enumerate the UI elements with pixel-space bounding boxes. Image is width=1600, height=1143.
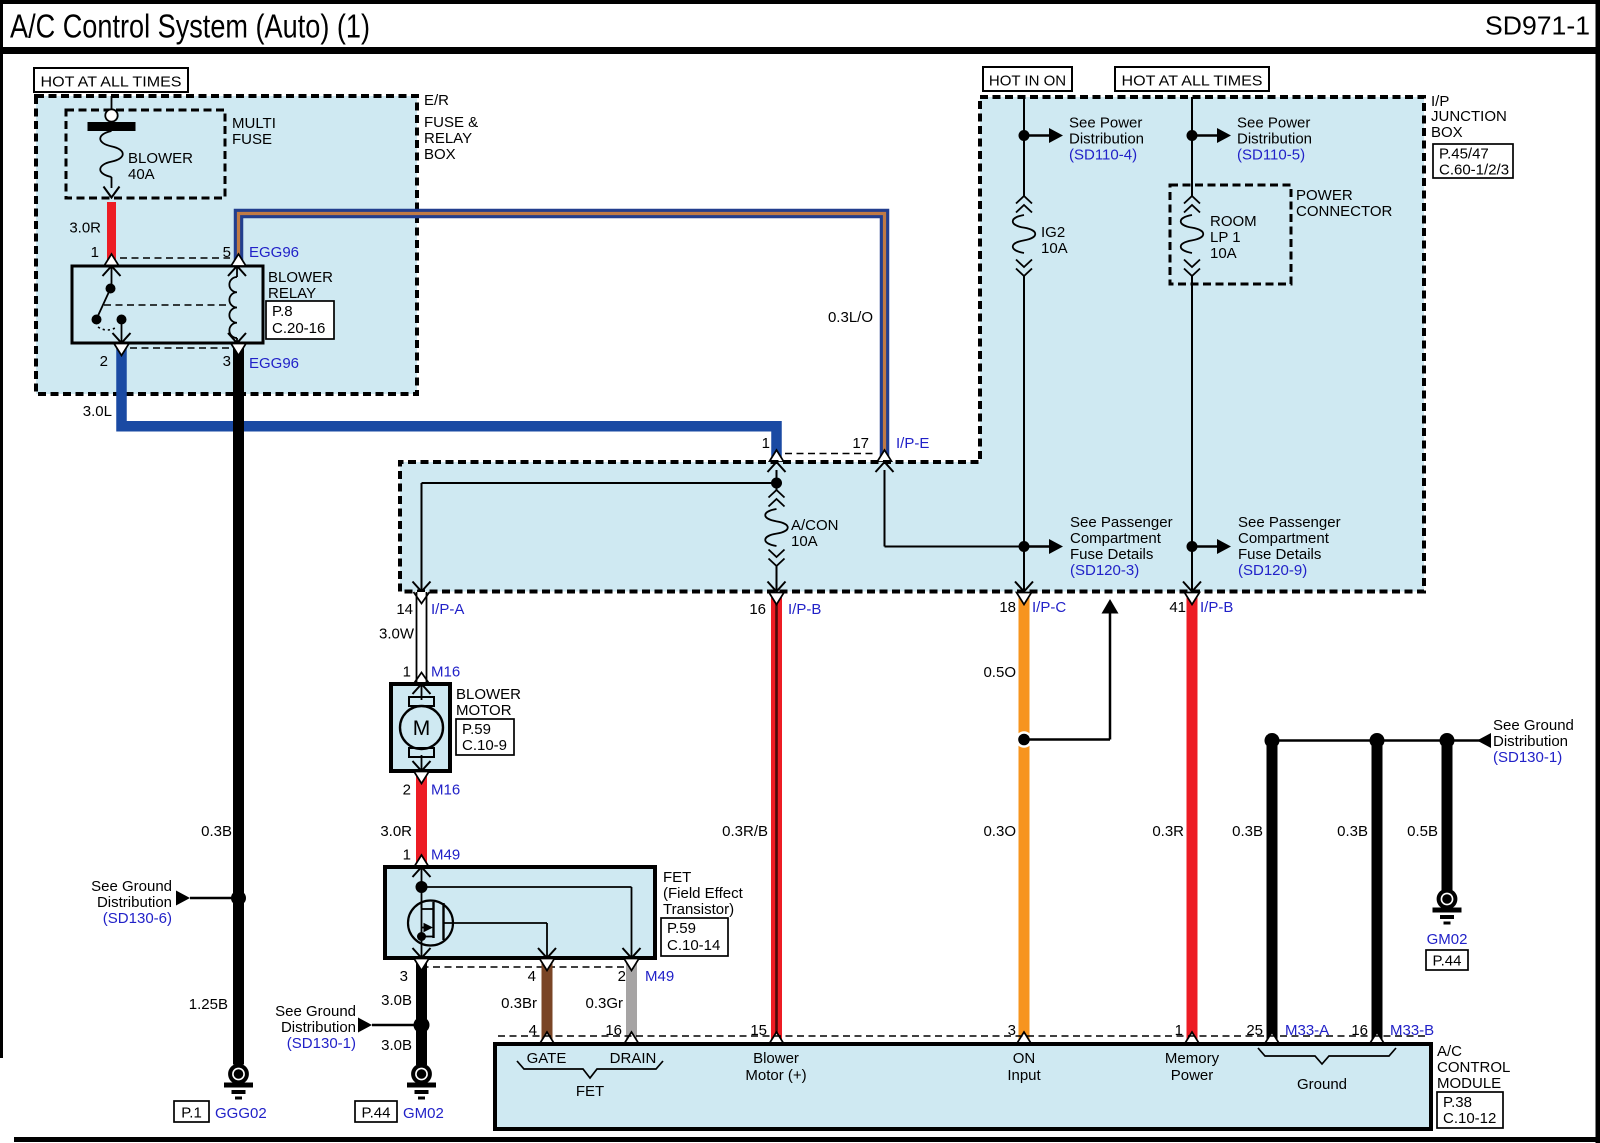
svg-text:(SD120-9): (SD120-9): [1238, 562, 1307, 579]
fuse ROOM LP 1 10A: [1181, 196, 1204, 276]
relay internal dashed link: [104, 304, 228, 306]
svg-text:3.0L: 3.0L: [83, 403, 112, 420]
svg-text:BLOWER: BLOWER: [456, 686, 521, 703]
node ROOM power junction: [1187, 130, 1198, 141]
I/P-E pin 17: [852, 435, 929, 472]
label HOT IN ON: [983, 67, 1072, 91]
relay ref box P.8 C.20-16: [266, 301, 334, 339]
svg-text:See Power: See Power: [1069, 115, 1142, 132]
svg-text:Compartment: Compartment: [1070, 530, 1162, 547]
transistor FET box: [385, 867, 655, 958]
module label A/C CONTROL MODULE: [1437, 1043, 1510, 1092]
wire 3.0R (fuse to relay pin 1): [104, 202, 119, 266]
svg-text:GM02: GM02: [1427, 931, 1468, 948]
svg-text:BOX: BOX: [424, 146, 456, 163]
svg-text:M49: M49: [431, 847, 460, 864]
E/R FUSE & RELAY BOX: [36, 96, 417, 394]
svg-text:(SD110-4): (SD110-4): [1069, 147, 1137, 164]
svg-text:M16: M16: [431, 664, 460, 681]
I/P-C pin 18: [999, 582, 1066, 617]
svg-text:41: 41: [1169, 599, 1186, 616]
wire 3.0R (motor to FET): [414, 771, 429, 867]
svg-text:See Passenger: See Passenger: [1238, 514, 1341, 531]
svg-text:P.44: P.44: [1433, 953, 1462, 970]
wire pin1 to A/CON node: [776, 470, 778, 490]
svg-text:P.44: P.44: [362, 1105, 391, 1122]
see passenger compartment fuse details SD120-3: [1024, 514, 1173, 579]
svg-text:HOT IN ON: HOT IN ON: [989, 73, 1066, 90]
svg-text:Motor (+): Motor (+): [745, 1067, 806, 1084]
svg-text:ROOM: ROOM: [1210, 213, 1257, 230]
svg-text:Distribution: Distribution: [97, 894, 172, 911]
svg-text:0.3Br: 0.3Br: [501, 995, 537, 1012]
wire 3.0L (relay pin 2 to I/P-E pin 1): [114, 344, 784, 463]
I/P ref box P.45/47 C.60-1/2/3: [1433, 144, 1513, 179]
svg-text:FUSE &: FUSE &: [424, 114, 478, 131]
motor BLOWER MOTOR: [391, 684, 450, 771]
wire strip to pin 14: [413, 483, 777, 592]
svg-text:I/P-B: I/P-B: [788, 601, 821, 618]
see ground distribution SD130-6: [91, 878, 246, 927]
svg-text:CONNECTOR: CONNECTOR: [1296, 203, 1393, 220]
svg-text:C.20-16: C.20-16: [272, 320, 325, 337]
connector M49 pin 1: [403, 847, 461, 864]
top border: [0, 0, 1600, 4]
svg-text:MULTI: MULTI: [232, 115, 276, 132]
svg-text:I/P-C: I/P-C: [1032, 599, 1066, 616]
svg-text:(SD130-6): (SD130-6): [103, 910, 172, 927]
relay BLOWER RELAY box: [72, 266, 263, 343]
svg-text:HOT AT ALL TIMES: HOT AT ALL TIMES: [41, 74, 182, 91]
FET label: [663, 869, 744, 918]
wire 0.3L/O (relay pin 5 to I/P-E pin 17): [231, 214, 892, 463]
svg-text:C.10-12: C.10-12: [1443, 1110, 1496, 1127]
wire 0.3B / 1.25B (relay pin 3 to ground GGG02): [231, 344, 246, 1065]
module ref box P.38 C.10-12: [1437, 1092, 1503, 1128]
wire 0.3Br (FET gate to module GATE): [540, 958, 555, 1044]
node ROOM/SD120-9 junction: [1187, 541, 1198, 552]
svg-text:1.25B: 1.25B: [189, 996, 228, 1013]
svg-text:0.3B: 0.3B: [1232, 823, 1263, 840]
svg-text:(Field Effect: (Field Effect: [663, 885, 744, 902]
ground ref P.1 GGG02: [174, 1101, 267, 1122]
connector dashed link pins 1-17: [785, 453, 877, 455]
svg-text:FET: FET: [663, 869, 691, 886]
ground ref P.44 GM02 (left): [355, 1101, 444, 1122]
node A/CON junction: [771, 478, 782, 489]
svg-text:1: 1: [403, 847, 411, 864]
svg-text:P.8: P.8: [272, 303, 293, 320]
MULTI FUSE label: [232, 115, 276, 148]
svg-text:(SD130-1): (SD130-1): [287, 1035, 356, 1052]
node IG2/I-P-E junction: [1019, 541, 1030, 552]
svg-text:C.60-1/2/3: C.60-1/2/3: [1439, 162, 1509, 179]
svg-text:2: 2: [618, 968, 626, 985]
svg-text:ON: ON: [1013, 1050, 1036, 1067]
svg-text:LP 1: LP 1: [1210, 229, 1241, 246]
svg-text:2: 2: [100, 353, 108, 370]
fuse BLOWER 40A: [88, 96, 136, 198]
svg-text:Memory: Memory: [1165, 1050, 1220, 1067]
wire 0.3B (module pin 25 ground): [1265, 733, 1280, 1044]
relay pin 5: [223, 244, 231, 261]
ground bus line: [1272, 739, 1480, 742]
connector dashed link pins 2-3: [130, 347, 230, 349]
svg-text:See Ground: See Ground: [275, 1003, 356, 1020]
node ON input junction: [1016, 731, 1033, 748]
motor ref box P.59 C.10-9: [456, 719, 514, 755]
wire 3.0B (FET source to ground GM02): [414, 958, 429, 1065]
svg-text:See Ground: See Ground: [1493, 717, 1574, 734]
svg-text:I/P-E: I/P-E: [896, 435, 929, 452]
svg-text:BLOWER: BLOWER: [268, 269, 333, 286]
svg-text:0.3R: 0.3R: [1152, 823, 1184, 840]
svg-text:0.3O: 0.3O: [983, 823, 1016, 840]
svg-text:Transistor): Transistor): [663, 901, 734, 918]
svg-text:P.1: P.1: [181, 1105, 202, 1122]
M49 pin 2: [618, 968, 675, 985]
svg-text:Ground: Ground: [1297, 1076, 1347, 1093]
see power distribution SD110-5: [1192, 115, 1312, 164]
svg-text:3.0R: 3.0R: [69, 220, 101, 237]
wire 0.5B (to ground GM02 right): [1440, 733, 1455, 890]
svg-text:Fuse Details: Fuse Details: [1238, 546, 1321, 563]
svg-text:A/CON: A/CON: [791, 517, 839, 534]
module connector dashed link: [498, 1035, 1428, 1037]
right border: [1596, 0, 1600, 1143]
svg-text:18: 18: [999, 599, 1016, 616]
I/P-B pin 41: [1169, 582, 1233, 617]
POWER CONNECTOR label: [1296, 187, 1393, 220]
svg-text:MODULE: MODULE: [1437, 1075, 1501, 1092]
label HOT AT ALL TIMES (left): [34, 68, 188, 92]
svg-text:EGG96: EGG96: [249, 244, 299, 261]
svg-text:40A: 40A: [128, 166, 155, 183]
module A/C CONTROL MODULE box: [495, 1044, 1431, 1129]
svg-text:DRAIN: DRAIN: [610, 1050, 657, 1067]
svg-text:JUNCTION: JUNCTION: [1431, 108, 1507, 125]
svg-text:3: 3: [223, 353, 231, 370]
wire 0.5O/0.3O (I/P-C pin 18 to module pin 3): [1017, 592, 1032, 1044]
fuse IG2 10A: [1013, 196, 1036, 276]
svg-text:3.0R: 3.0R: [380, 823, 412, 840]
label ROOM LP 1 10A: [1210, 213, 1257, 262]
svg-text:See Ground: See Ground: [91, 878, 172, 895]
E/R box label: [424, 92, 478, 163]
bottom border: [14, 1137, 1600, 1142]
svg-text:I/P-B: I/P-B: [1200, 599, 1233, 616]
svg-text:10A: 10A: [791, 533, 818, 550]
Ground brace: [1258, 1048, 1396, 1064]
connector M49 dashed link: [422, 966, 641, 968]
label HOT AT ALL TIMES (right): [1115, 67, 1269, 91]
title rule: [0, 47, 1596, 54]
fuse A/CON 10A: [765, 490, 788, 592]
connector M16 pin 2: [403, 782, 461, 799]
svg-text:0.5B: 0.5B: [1407, 823, 1438, 840]
svg-text:M: M: [413, 717, 431, 740]
svg-text:1: 1: [762, 435, 770, 452]
label BLOWER 40A: [128, 150, 193, 183]
ground ref GM02 P.44 (right): [1426, 931, 1468, 970]
svg-text:Distribution: Distribution: [1493, 733, 1568, 750]
wire IG2 to pin 18: [1023, 276, 1025, 590]
svg-text:Blower: Blower: [753, 1050, 799, 1067]
svg-text:3.0B: 3.0B: [381, 1037, 412, 1054]
svg-text:0.3B: 0.3B: [201, 823, 232, 840]
ON input branch arrow: [1024, 599, 1119, 740]
wire 3.0W (pin 14 to blower motor): [414, 592, 430, 684]
svg-text:FUSE: FUSE: [232, 131, 272, 148]
module label ON Input: [1007, 1050, 1041, 1084]
see ground distribution SD130-1 (right): [1477, 717, 1574, 766]
svg-text:Power: Power: [1171, 1067, 1214, 1084]
module label Blower Motor (+): [745, 1050, 806, 1084]
svg-text:2: 2: [403, 782, 411, 799]
svg-text:(SD120-3): (SD120-3): [1070, 562, 1139, 579]
module pin 25 / M33-A: [1246, 1022, 1329, 1039]
see passenger compartment fuse details SD120-9: [1192, 514, 1341, 579]
ground GM02 (right): [1433, 891, 1462, 925]
svg-text:GATE: GATE: [527, 1050, 567, 1067]
svg-text:0.5O: 0.5O: [983, 664, 1016, 681]
svg-text:FET: FET: [576, 1083, 604, 1100]
FET ref box P.59 C.10-14: [661, 918, 728, 956]
svg-text:MOTOR: MOTOR: [456, 702, 512, 719]
svg-text:0.3L/O: 0.3L/O: [828, 309, 873, 326]
svg-text:0.3Gr: 0.3Gr: [585, 995, 623, 1012]
svg-text:POWER: POWER: [1296, 187, 1353, 204]
wire 0.3Gr (FET drain to module DRAIN): [624, 958, 639, 1044]
FET internal wiring: [413, 867, 641, 958]
svg-text:SD971-1: SD971-1: [1485, 11, 1590, 41]
ground GGG02: [224, 1066, 253, 1100]
svg-text:Distribution: Distribution: [1237, 131, 1312, 148]
svg-text:M16: M16: [431, 782, 460, 799]
connector M16 pin 1: [403, 664, 461, 681]
svg-text:P.45/47: P.45/47: [1439, 146, 1489, 163]
svg-text:See Passenger: See Passenger: [1070, 514, 1173, 531]
svg-text:Distribution: Distribution: [281, 1019, 356, 1036]
svg-text:10A: 10A: [1041, 240, 1068, 257]
svg-text:BLOWER: BLOWER: [128, 150, 193, 167]
I/P-E pin 1: [762, 435, 786, 472]
svg-text:GM02: GM02: [403, 1105, 444, 1122]
MOSFET symbol: [408, 901, 556, 959]
I/P-A pin 14: [396, 601, 464, 618]
I/P-B pin 16: [749, 601, 821, 618]
svg-text:HOT AT ALL TIMES: HOT AT ALL TIMES: [1122, 73, 1263, 90]
svg-text:CONTROL: CONTROL: [1437, 1059, 1510, 1076]
svg-text:3.0B: 3.0B: [381, 992, 412, 1009]
I/P JUNCTION BOX: [400, 97, 1424, 592]
svg-text:P.59: P.59: [667, 920, 696, 937]
svg-text:P.38: P.38: [1443, 1094, 1472, 1111]
wire 0.3R/B (I/P-B pin 16 to module pin 15): [769, 592, 784, 1044]
left border: [0, 0, 3, 1058]
svg-text:I/P-A: I/P-A: [431, 601, 464, 618]
svg-text:(SD110-5): (SD110-5): [1237, 147, 1305, 164]
module pin 16 / M33-B: [1351, 1022, 1434, 1039]
svg-text:GGG02: GGG02: [215, 1105, 267, 1122]
svg-text:BOX: BOX: [1431, 124, 1463, 141]
svg-text:IG2: IG2: [1041, 224, 1065, 241]
svg-text:1: 1: [91, 244, 99, 261]
svg-text:Fuse Details: Fuse Details: [1070, 546, 1153, 563]
label IG2 10A: [1041, 224, 1068, 257]
svg-text:See Power: See Power: [1237, 115, 1310, 132]
svg-text:1: 1: [403, 664, 411, 681]
see ground distribution SD130-1 (left): [275, 1003, 429, 1052]
svg-text:3.0W: 3.0W: [379, 626, 415, 643]
relay pin 1: [91, 244, 99, 261]
svg-text:Input: Input: [1007, 1067, 1041, 1084]
connector dashed link pins 1-5: [120, 257, 230, 259]
wire I/P-E pin17 to IG2 node: [885, 470, 1020, 547]
wire IG2 feed: [1023, 97, 1025, 196]
svg-text:A/C Control System (Auto) (1): A/C Control System (Auto) (1): [10, 8, 370, 45]
relay coil: [228, 266, 246, 343]
svg-text:RELAY: RELAY: [424, 130, 472, 147]
svg-text:Distribution: Distribution: [1069, 131, 1144, 148]
svg-text:RELAY: RELAY: [268, 285, 316, 302]
svg-text:A/C: A/C: [1437, 1043, 1462, 1060]
label A/CON 10A: [791, 517, 839, 550]
svg-text:M49: M49: [645, 968, 674, 985]
POWER CONNECTOR box: [1170, 185, 1291, 284]
ground GM02 (left): [407, 1066, 436, 1100]
svg-text:Compartment: Compartment: [1238, 530, 1330, 547]
I/P junction box label: [1431, 93, 1507, 141]
svg-text:3: 3: [400, 968, 408, 985]
MULTI FUSE box: [66, 110, 225, 198]
svg-text:(SD130-1): (SD130-1): [1493, 749, 1562, 766]
svg-text:EGG96: EGG96: [249, 355, 299, 372]
svg-text:14: 14: [396, 601, 413, 618]
wire 0.3R (I/P-B pin 41 to module pin 1): [1185, 592, 1200, 1044]
svg-text:17: 17: [852, 435, 869, 452]
svg-text:16: 16: [749, 601, 766, 618]
wire ROOM LP feed: [1191, 97, 1193, 196]
see power distribution SD110-4: [1024, 115, 1144, 164]
svg-text:0.3R/B: 0.3R/B: [722, 823, 768, 840]
svg-text:C.10-14: C.10-14: [667, 937, 720, 954]
relay switch contact: [92, 266, 131, 343]
relay label: [268, 269, 333, 302]
FET brace: [517, 1061, 663, 1078]
svg-text:E/R: E/R: [424, 92, 449, 109]
svg-text:C.10-9: C.10-9: [462, 737, 507, 754]
svg-text:4: 4: [528, 968, 536, 985]
svg-text:0.3B: 0.3B: [1337, 823, 1368, 840]
module label Memory Power: [1165, 1050, 1220, 1084]
svg-text:10A: 10A: [1210, 245, 1237, 262]
node IG2 power junction: [1019, 130, 1030, 141]
svg-text:P.59: P.59: [462, 721, 491, 738]
wire ROOM to pin 41: [1191, 276, 1193, 590]
wire 0.3B (module pin 16 ground): [1370, 733, 1385, 1044]
motor label BLOWER MOTOR: [456, 686, 521, 719]
